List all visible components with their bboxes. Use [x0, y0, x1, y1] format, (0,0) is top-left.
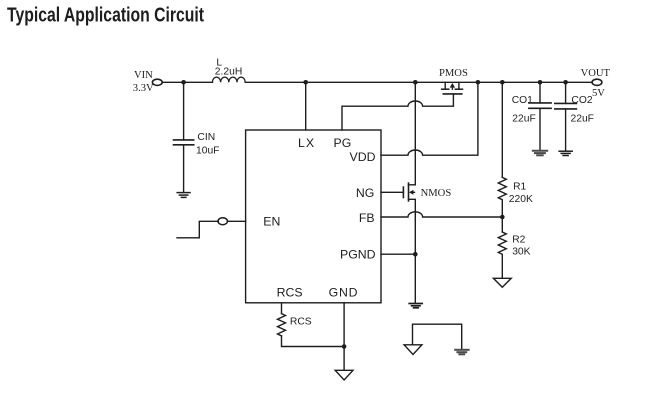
svg-text:EN: EN	[263, 215, 280, 229]
svg-text:PMOS: PMOS	[439, 68, 468, 79]
svg-text:2.2uH: 2.2uH	[215, 67, 242, 78]
svg-text:PG: PG	[334, 136, 352, 150]
svg-text:220K: 220K	[509, 194, 533, 205]
svg-text:R2: R2	[512, 234, 525, 245]
svg-text:NG: NG	[356, 186, 374, 200]
svg-text:3.3V: 3.3V	[133, 83, 154, 94]
svg-text:VOUT: VOUT	[581, 68, 611, 79]
svg-text:10uF: 10uF	[196, 146, 219, 157]
svg-text:Typical Application Circuit: Typical Application Circuit	[7, 4, 204, 26]
svg-text:VIN: VIN	[134, 70, 153, 81]
svg-text:22uF: 22uF	[571, 113, 594, 124]
svg-text:22uF: 22uF	[512, 113, 535, 124]
svg-text:NMOS: NMOS	[421, 188, 452, 199]
svg-text:CIN: CIN	[197, 132, 215, 143]
svg-text:5V: 5V	[592, 88, 605, 99]
svg-text:30K: 30K	[512, 247, 530, 258]
svg-text:RCS: RCS	[277, 286, 303, 300]
svg-text:FB: FB	[359, 211, 375, 225]
svg-text:RCS: RCS	[290, 316, 312, 327]
svg-text:GND: GND	[329, 286, 359, 300]
svg-text:LX: LX	[298, 136, 315, 150]
svg-text:VDD: VDD	[350, 150, 376, 164]
svg-text:PGND: PGND	[340, 248, 376, 262]
svg-text:CO1: CO1	[512, 95, 533, 106]
svg-text:CO2: CO2	[571, 95, 592, 106]
svg-text:R1: R1	[513, 182, 526, 193]
